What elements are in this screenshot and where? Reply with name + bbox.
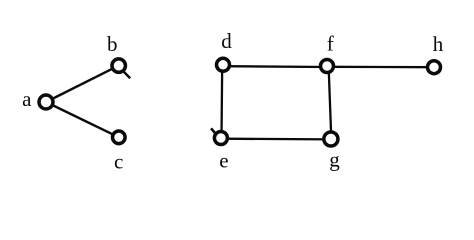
wire a-c — [46, 102, 119, 137]
wire d-e — [220, 65, 223, 138]
svg-text:e: e — [219, 148, 228, 172]
svg-text:d: d — [221, 29, 232, 53]
wire f-g — [329, 66, 332, 139]
svg-text:f: f — [327, 32, 334, 56]
svg-text:b: b — [107, 32, 118, 56]
node d — [217, 58, 230, 71]
node b tail stub — [124, 72, 130, 78]
wire e-g — [221, 138, 331, 141]
node c — [113, 131, 126, 144]
node h — [428, 61, 441, 74]
svg-text:a: a — [22, 87, 32, 111]
svg-text:g: g — [329, 147, 340, 171]
wire f-h — [327, 66, 434, 69]
node g — [324, 132, 338, 146]
svg-text:h: h — [433, 32, 444, 56]
node e tick stub — [211, 128, 216, 133]
wire d-f — [223, 65, 327, 68]
node e — [214, 132, 227, 145]
wire a-b — [46, 66, 119, 102]
node a — [39, 95, 53, 109]
svg-text:c: c — [114, 149, 123, 173]
node b — [112, 59, 126, 73]
node f — [321, 60, 334, 73]
